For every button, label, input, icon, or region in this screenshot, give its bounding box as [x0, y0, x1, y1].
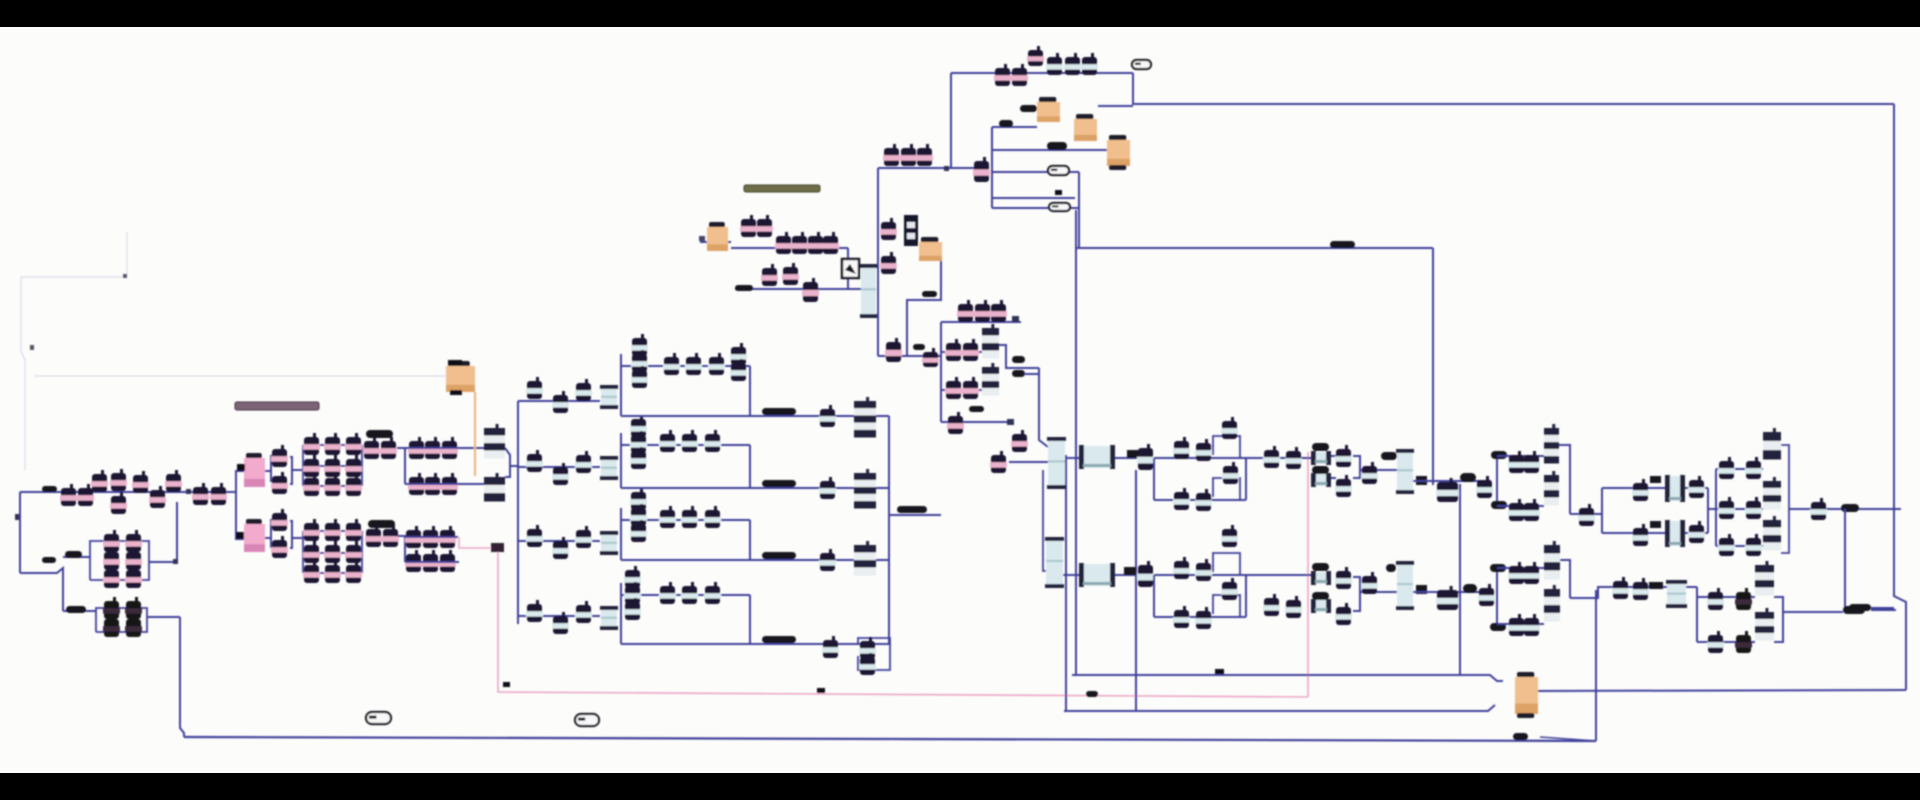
staircase vertical x992: [991, 127, 993, 208]
pump T5: [807, 232, 824, 254]
faint wire left vertical: [21, 277, 25, 470]
pump N3: [990, 300, 1007, 322]
right edge drop: [1894, 104, 1906, 690]
column C-860: [860, 264, 877, 318]
wire splitter vertical: [235, 470, 237, 540]
wire V2 to cluster: [292, 537, 303, 539]
H1 tick: [699, 236, 705, 241]
reboiler RB1: [1515, 672, 1538, 718]
rowB split: [1153, 575, 1155, 617]
pump C2-10: [324, 519, 341, 541]
wire box2 frame: [96, 608, 147, 632]
endcluster rung 3: [1716, 545, 1763, 547]
pump T4: [791, 232, 808, 254]
pump R2-1: [659, 430, 676, 452]
pump P1: [60, 484, 77, 506]
label A-6: [1491, 501, 1507, 509]
label B-4: [1463, 584, 1477, 593]
faint wire top-left vertical: [126, 232, 128, 277]
bus y248 label: [1330, 241, 1355, 248]
exchanger EA1: [1079, 445, 1115, 469]
letdown heater LH3: [1107, 135, 1130, 170]
rung2 label: [1047, 142, 1067, 150]
faint wire mid horizontal: [34, 375, 446, 377]
cooler CA3: [1665, 475, 1685, 502]
pump A5: [1173, 488, 1190, 510]
drum D1: [600, 385, 618, 409]
rowA mini rails2: [1331, 477, 1336, 479]
drop x1039: [1039, 368, 1048, 447]
branch top rung: [941, 321, 1021, 323]
pump P31: [424, 473, 441, 495]
pump U4: [1046, 53, 1063, 75]
pump G2: [1632, 578, 1649, 600]
wire box1 out: [149, 561, 177, 563]
rowA lower loop: [1213, 478, 1240, 500]
stack pump S1-1: [631, 334, 648, 356]
stack pump S3-1: [630, 488, 647, 510]
pump E3-2: [1745, 534, 1762, 556]
label capsule S1-D: [66, 606, 86, 613]
pump B-A10: [1335, 567, 1352, 589]
pump R1-3: [708, 353, 725, 375]
pink connector: [491, 543, 504, 552]
wire V1 split low: [270, 471, 272, 482]
label capsule C2: [368, 520, 395, 528]
pump P30: [408, 473, 425, 495]
tick mark node 2: [30, 345, 34, 350]
pump B-A1: [1137, 561, 1154, 587]
pump P23: [271, 509, 288, 531]
pump A8: [1263, 446, 1280, 468]
pump N2: [974, 300, 991, 322]
endcluster left: [1715, 469, 1717, 546]
wire H2 drop: [907, 261, 941, 356]
pump T12: [916, 144, 933, 166]
wire row low: [405, 483, 484, 485]
wire cluster1 rail bot: [303, 485, 362, 487]
pump P16: [125, 566, 142, 588]
wire cluster1 left: [302, 445, 304, 486]
wire cluster2 right: [361, 531, 363, 573]
pump R3-1: [659, 506, 676, 528]
rowB upper path: [1154, 574, 1246, 576]
label M: [922, 291, 937, 297]
pump U2: [1011, 64, 1028, 86]
junction arrow: [15, 514, 19, 520]
FH1 top tick: [448, 360, 462, 366]
pump A15: [1508, 451, 1525, 473]
pink recycle rise: [1307, 452, 1309, 697]
pump P33: [365, 525, 382, 547]
letdown heater LH2: [1074, 114, 1097, 141]
pump G6: [1735, 631, 1752, 653]
rowA out2: [1570, 513, 1602, 515]
drum D2: [600, 456, 618, 480]
rowA to col: [1360, 469, 1397, 471]
pump P25: [363, 437, 380, 459]
pump N8: [962, 377, 979, 399]
pump R4-2: [681, 582, 698, 604]
pump B-A15: [1508, 562, 1525, 584]
pump P37: [439, 526, 456, 548]
wire box1 frame: [90, 541, 149, 580]
branch mid1 out: [999, 345, 1039, 368]
pump B-A11: [1335, 603, 1352, 625]
endcluster right: [1781, 445, 1789, 553]
pump P19: [125, 597, 142, 619]
cooler CA4: [1665, 520, 1685, 547]
pump P12: [103, 548, 120, 570]
pump R1-1: [663, 353, 680, 375]
to endcluster: [1708, 508, 1716, 510]
long bus row4: [621, 643, 890, 645]
pump G3: [1707, 588, 1724, 610]
link LB1: [1124, 567, 1136, 575]
pump B1: [819, 405, 836, 427]
label G-1: [1843, 606, 1865, 614]
rung1 label: [999, 120, 1013, 127]
label B-2: [1312, 592, 1329, 600]
pump F4-2: [552, 612, 569, 634]
wire V1 merge: [290, 457, 292, 484]
pump P22: [271, 472, 288, 494]
wire cluster1 rail top: [303, 444, 362, 446]
staircase rung y198: [992, 197, 1075, 199]
bus label y488: [762, 480, 796, 487]
G branch low: [1697, 641, 1755, 643]
stack pump S2-3: [630, 447, 647, 469]
wire V2 merge: [290, 521, 292, 548]
pump P28: [424, 437, 441, 459]
label A-1: [1312, 443, 1329, 451]
stack pump S1-5: [730, 359, 747, 381]
cluster box 2 left vertical: [620, 433, 622, 488]
pump P8: [165, 470, 182, 492]
wire left loop vertical: [19, 492, 21, 573]
cooler CB2: [1311, 599, 1331, 613]
main vertical x878: [877, 168, 879, 356]
pump P20: [125, 615, 142, 637]
pump F2-2: [552, 463, 569, 485]
pump C1-02: [303, 474, 320, 496]
branch y488: [1602, 487, 1708, 489]
G merge: [1774, 597, 1783, 642]
rowA box low: [1497, 505, 1544, 507]
wire tower out: [510, 465, 518, 467]
wire cluster2 rail bot: [303, 572, 362, 574]
link LA1: [1127, 450, 1139, 458]
pump E1-2: [1745, 457, 1762, 479]
wire V1 to cluster: [292, 469, 303, 471]
pump F3-1: [526, 525, 543, 547]
pump N12: [990, 451, 1007, 473]
rung3 tag: [1048, 166, 1069, 175]
merge label: [897, 506, 927, 513]
link LG1: [1649, 582, 1663, 589]
label N-2: [1012, 370, 1025, 377]
loop row4: [858, 638, 890, 670]
pump P39: [422, 550, 439, 572]
wire to pink box2: [236, 538, 244, 540]
label A-3: [1381, 452, 1397, 460]
stack pump S4-2: [624, 582, 641, 604]
label M2: [913, 344, 925, 350]
tower TE2: [1763, 477, 1781, 510]
bus label y560: [762, 552, 796, 559]
cooler CA2: [1311, 473, 1331, 487]
tower TE3: [1763, 516, 1781, 551]
stack pump S4-3: [624, 598, 641, 620]
pump P5: [110, 492, 127, 514]
pump P13: [103, 566, 120, 588]
cluster box 4 mid bus: [621, 594, 750, 596]
pump A21: [1688, 476, 1705, 498]
pump U5: [1064, 53, 1081, 75]
tower TG2: [1755, 608, 1774, 641]
staircase rung y172: [992, 171, 1079, 173]
pump P4: [110, 469, 127, 491]
heater H1: [707, 222, 728, 251]
pink feed tank V1: [244, 453, 265, 487]
G split: [1696, 587, 1698, 642]
pump C1-20: [345, 433, 362, 455]
wire row up: [405, 447, 484, 449]
pump C2-01: [303, 541, 320, 563]
pump N10: [947, 412, 964, 434]
pump P40: [439, 550, 456, 572]
pump T2: [756, 215, 773, 237]
drum DG1: [1666, 580, 1687, 608]
pump T11: [900, 144, 917, 166]
label capsule S1-B: [42, 557, 56, 563]
stack pump S3-3: [630, 520, 647, 542]
junction x1602: [1601, 488, 1603, 533]
pump C1-11: [324, 455, 341, 477]
FH1 bottom tick: [450, 390, 462, 395]
pump T3: [775, 232, 792, 254]
endcluster rung 2: [1716, 508, 1763, 510]
strip tower N9: [982, 363, 999, 396]
pump P18: [103, 615, 120, 637]
cluster box 4 left vertical: [620, 583, 622, 644]
pump T13: [973, 157, 990, 182]
branch bottom rung: [941, 421, 1009, 423]
pump R4-1: [659, 582, 676, 604]
pump U6: [1081, 53, 1098, 75]
G branch up: [1697, 596, 1755, 598]
rowA bus2: [1413, 480, 1491, 482]
faint wire top-left horizontal: [21, 276, 125, 278]
pump B-A9: [1285, 596, 1302, 618]
main vertical x1076: [1075, 210, 1077, 675]
cluster box 2 mid bus: [621, 444, 750, 446]
rowA split: [1153, 458, 1155, 500]
pump B-A18: [1523, 614, 1540, 636]
pump P34: [382, 525, 399, 547]
rowA upper loop: [1213, 436, 1240, 458]
pump P24: [271, 536, 288, 558]
label B-3: [1386, 564, 1396, 572]
drop to rowB: [1043, 470, 1046, 571]
cluster box 3 left vertical: [620, 508, 622, 560]
rowB box split: [1496, 568, 1498, 624]
label capsule S1-C: [65, 551, 82, 558]
pump T7: [761, 264, 778, 286]
tower TB2: [1544, 585, 1560, 622]
wire cluster1 right: [361, 445, 363, 486]
main vertical x1136: [1135, 470, 1137, 711]
pump B-A6: [1195, 607, 1212, 629]
pump A18: [1523, 499, 1540, 521]
endcluster rung 1: [1716, 468, 1763, 470]
G out: [1783, 611, 1843, 613]
pump U3: [1027, 46, 1044, 66]
column CL-B: [1396, 561, 1414, 610]
tower TE1: [1763, 428, 1781, 460]
pump A10: [1335, 445, 1352, 467]
pump P11: [103, 530, 120, 552]
wire V2 split low: [270, 538, 272, 548]
pump B6: [859, 653, 876, 675]
pump A6: [1195, 489, 1212, 511]
rowA box split: [1496, 456, 1498, 506]
pump P27: [408, 437, 425, 459]
pink node A: [503, 682, 510, 687]
pump B4: [822, 636, 839, 658]
bottom letterbox bar: [0, 773, 1920, 800]
pump C2-22: [345, 561, 362, 583]
pump C1-21: [345, 455, 362, 477]
fan vertical: [517, 401, 519, 624]
pump E1-1: [1718, 457, 1735, 479]
rowA out: [1246, 457, 1312, 459]
valve icon frame: [842, 259, 859, 278]
exchanger X2: [854, 469, 876, 509]
rowB box merge: [1560, 560, 1570, 598]
pump P38: [405, 550, 422, 572]
rowA merge: [1245, 458, 1247, 500]
end link: [1871, 607, 1894, 609]
pump F2-1: [526, 450, 543, 472]
pink node B: [817, 688, 825, 693]
label B-1: [1312, 563, 1329, 571]
pump R2-3: [704, 430, 721, 452]
cooler CA1: [1311, 451, 1331, 465]
pump C1-00: [303, 433, 320, 455]
label capsule C1: [366, 430, 393, 438]
merge x1708: [1707, 488, 1709, 533]
label E-1: [1841, 504, 1859, 512]
olive legend bar: [744, 185, 820, 192]
wire mid branch to box: [63, 556, 90, 558]
exchanger EB1: [1079, 563, 1115, 587]
tower TG1: [1755, 561, 1774, 596]
cluster box 2 right vertical: [749, 445, 751, 488]
pump N11: [1011, 430, 1028, 452]
wire bottom long bus: [184, 737, 1596, 741]
pump A17: [1508, 499, 1525, 521]
pump C1-22: [345, 474, 362, 496]
pump R2-2: [681, 430, 698, 452]
wire V1 split: [265, 455, 271, 471]
pump B-A16: [1523, 562, 1540, 584]
wire row up2: [405, 536, 458, 538]
tower TA2: [1544, 471, 1559, 506]
wire drop x848: [847, 248, 849, 289]
label capsule T: [735, 285, 753, 291]
wire V2 split: [265, 519, 271, 538]
stack pump S2-2: [630, 431, 647, 453]
pump B-A13: [1436, 586, 1459, 610]
fan row 4 bus: [518, 615, 600, 617]
rowA lower path: [1154, 499, 1246, 501]
fan row 2 bus: [518, 466, 600, 468]
pump F2-3: [575, 451, 592, 473]
bus675 mark: [1215, 669, 1224, 674]
pump C2-20: [345, 519, 362, 541]
pump N5: [962, 339, 979, 361]
staircase drop x1079: [1078, 172, 1080, 248]
pump N7: [945, 377, 962, 399]
branch mid1 rung: [941, 351, 982, 353]
cluster box 3 right vertical: [749, 520, 751, 560]
pump E3-1: [1718, 534, 1735, 556]
pump A20: [1632, 479, 1649, 501]
strip tower N6: [982, 324, 999, 359]
long bus y248: [1075, 247, 1433, 249]
long bus row2: [621, 487, 889, 489]
pump C1-10: [324, 433, 341, 455]
tank V2 corner mark: [236, 532, 244, 539]
label E-2: [1849, 604, 1871, 611]
pump R4-3: [704, 582, 721, 604]
pump T6: [822, 232, 839, 254]
orange utility drop: [474, 392, 476, 476]
pump A7: [1222, 462, 1239, 484]
rowB to col: [1360, 591, 1397, 593]
pump F1-2: [552, 391, 569, 413]
wire to pink box1: [236, 470, 244, 472]
fired heater FH1: [446, 361, 475, 392]
wire tan chain: [700, 241, 731, 243]
pump P36: [422, 526, 439, 548]
pump P15: [125, 548, 142, 570]
rowB mini merge: [1353, 577, 1360, 611]
pump F4-3: [575, 601, 592, 623]
bottom label: [1513, 733, 1528, 740]
pump P21: [271, 445, 288, 467]
feed to drum: [1009, 461, 1048, 463]
junction arrow row1: [186, 489, 191, 494]
riser x951: [950, 73, 952, 168]
wire mid branch horizontal: [20, 568, 63, 611]
long bus y711: [1064, 705, 1495, 711]
pump P9: [192, 483, 209, 505]
drum D3: [600, 531, 618, 555]
rowA bus: [1065, 457, 1154, 459]
tick mark node: [123, 274, 127, 278]
pump T1: [740, 215, 757, 237]
pink recycle wire: [459, 537, 492, 548]
wire cluster1 rail mid: [303, 465, 362, 467]
stream tag bottom2: [575, 714, 599, 726]
staircase rung y127: [992, 126, 1037, 128]
pump A2: [1173, 437, 1190, 459]
pump T9: [802, 278, 819, 302]
maroon legend bar: [235, 402, 319, 410]
rowB out: [1246, 574, 1312, 576]
